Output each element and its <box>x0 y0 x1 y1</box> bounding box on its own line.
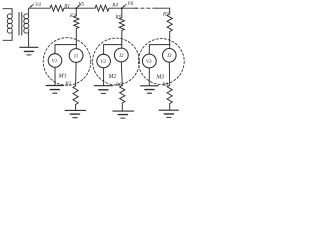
wire R3 to ground <box>75 105 77 111</box>
dashed boundary module M1 <box>43 38 91 86</box>
node V5 junction dot <box>75 7 77 9</box>
resistor R1 <box>50 5 64 11</box>
svg-text:V5: V5 <box>78 1 84 7</box>
svg-text:I2: I2 <box>118 53 124 59</box>
wire secondary bottom to ground <box>28 33 30 47</box>
svg-text:R2: R2 <box>69 13 76 19</box>
resistor R8 <box>167 85 172 103</box>
wire R2 down to module M1 <box>75 29 77 45</box>
wire R6 to ground <box>121 103 123 111</box>
arrow node V4 <box>31 4 34 7</box>
wire feed to ammeter I3 <box>169 45 171 49</box>
wire feed to ammeter I2 <box>121 45 123 49</box>
resistor R4 <box>95 5 109 11</box>
transformer T1 secondary winding <box>24 14 29 19</box>
wire dashed continuation <box>135 7 157 9</box>
svg-text:V3: V3 <box>146 59 152 65</box>
svg-text:R1: R1 <box>63 3 70 9</box>
wire R1 to node V5 <box>64 7 76 9</box>
wire I3 to R8 <box>168 62 170 85</box>
svg-text:M2: M2 <box>107 74 116 80</box>
dashed boundary module M3 <box>138 39 184 85</box>
resistor R2 <box>74 16 79 29</box>
arrow node V5 <box>78 4 81 7</box>
wire branch M3 to voltmeter V3 <box>149 45 169 55</box>
wire V3 to ground <box>148 68 150 86</box>
wire R5 down to module M2 <box>121 31 123 45</box>
node V6 junction dot <box>121 7 123 9</box>
ground under V3 <box>141 85 159 87</box>
transformer T1 primary winding <box>7 14 12 19</box>
wire R7 down to module M3 <box>169 32 171 45</box>
transformer T1 primary bottom lead <box>3 33 12 41</box>
svg-text:R6: R6 <box>115 82 122 88</box>
ground under V1 <box>46 85 64 87</box>
wire V6 rightwards solid <box>122 7 137 9</box>
svg-text:R5: R5 <box>114 15 121 21</box>
wire node V4 to R1 <box>29 8 50 14</box>
resistor R5 <box>119 18 124 31</box>
voltmeter V1 <box>48 54 62 68</box>
svg-text:V6: V6 <box>127 1 133 7</box>
svg-text:I3: I3 <box>166 53 172 59</box>
ground under V2 <box>94 85 113 87</box>
voltmeter V2 <box>97 54 111 68</box>
svg-text:M1: M1 <box>58 74 67 80</box>
transformer T1 core <box>19 13 22 36</box>
ammeter I2 <box>114 48 128 62</box>
ground under transformer <box>20 46 38 48</box>
wire V6 junction to R5 <box>121 8 123 17</box>
wire V5 to R4 <box>76 7 95 9</box>
svg-text:R3: R3 <box>64 81 71 87</box>
ammeter I1 <box>69 49 83 63</box>
voltmeter V3 <box>142 54 156 68</box>
wire V1 to ground <box>54 67 56 85</box>
wire R4 to node V6 <box>109 7 122 9</box>
dashed boundary module M2 <box>93 38 140 85</box>
ammeter I3 <box>163 49 177 63</box>
wire I2 to R6 <box>121 62 122 86</box>
arrow node V6 <box>123 4 126 7</box>
ground under R3 <box>65 109 85 111</box>
wire I1 to R3 <box>75 62 78 85</box>
resistor R6 <box>120 86 125 104</box>
svg-text:M3: M3 <box>155 74 164 80</box>
wire branch M1 to voltmeter V1 <box>55 45 76 54</box>
wire V2 to ground <box>103 68 105 86</box>
resistor R3 <box>73 86 78 105</box>
svg-text:V1: V1 <box>52 58 58 64</box>
transformer T1 primary top lead <box>3 9 12 15</box>
wire R8 to ground <box>169 104 171 111</box>
svg-text:R7: R7 <box>162 11 169 17</box>
wire corner to right branch <box>156 8 170 14</box>
svg-text:R8: R8 <box>161 82 168 88</box>
svg-text:R4: R4 <box>111 2 118 9</box>
resistor R7 <box>167 14 172 32</box>
svg-text:I1: I1 <box>73 53 79 59</box>
wire V5 junction to R2 <box>75 8 77 16</box>
svg-text:V4: V4 <box>35 2 41 8</box>
ground under R6 <box>113 110 134 112</box>
ground under R8 <box>159 109 178 111</box>
svg-text:V2: V2 <box>100 59 106 65</box>
wire branch M2 to voltmeter V2 <box>104 45 122 55</box>
wire feed to ammeter I1 <box>75 45 77 49</box>
